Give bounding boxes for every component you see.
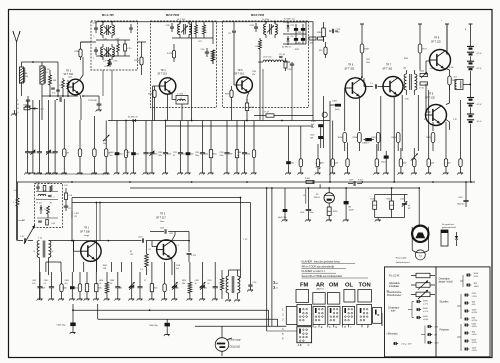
svg-text:C604: C604 [118, 154, 122, 156]
verticals from detector [262, 69, 264, 121]
svg-text:C204: C204 [167, 154, 171, 156]
svg-text:C4x: C4x [176, 288, 179, 290]
wire bus to C112 [182, 231, 189, 233]
svg-text:CLAVIER vu coté C.I.: CLAVIER vu coté C.I. [302, 270, 326, 273]
lines to right section [72, 197, 241, 199]
svg-text:±2,5%: ±2,5% [472, 320, 478, 322]
svg-text:O L: O L [46, 72, 49, 74]
feed terminal 447 [445, 23, 449, 25]
capacitor C111 [164, 229, 166, 233]
coil L204 [21, 62, 23, 67]
module M3 drops [231, 102, 233, 121]
svg-text:C211: C211 [173, 152, 177, 154]
svg-text:C 10: C 10 [20, 236, 24, 238]
electrolytic C302b [318, 136, 323, 139]
svg-text:C60: C60 [119, 288, 122, 290]
capacitor C220 [170, 26, 174, 28]
feed terminal 362 [360, 23, 364, 25]
svg-text:ant AM: ant AM [19, 219, 26, 222]
svg-text:4,5 V: 4,5 V [477, 53, 482, 55]
diode OA second [40, 207, 43, 210]
electrolytic C227 [294, 38, 298, 41]
svg-text:C201: C201 [458, 197, 463, 199]
svg-text:C220: C220 [288, 69, 292, 71]
bus TR1 top [55, 240, 139, 242]
svg-text:CELLULE: CELLULE [230, 346, 241, 349]
resistor R209 between modules [140, 57, 143, 65]
wire left drops [27, 100, 29, 128]
svg-text:±5%: ±5% [472, 304, 476, 306]
svg-text:[5uF]: [5uF] [335, 109, 340, 111]
vertical T12 feed [240, 198, 242, 279]
svg-text:L: L [25, 70, 26, 72]
svg-text:10n: 10n [252, 74, 255, 76]
svg-text:R30: R30 [319, 50, 322, 52]
svg-text:C608: C608 [23, 105, 27, 107]
resistor A320 mid [420, 73, 428, 76]
variable resistor arrow [411, 154, 418, 161]
diode K1 SFD110 [133, 119, 136, 122]
svg-text:C220: C220 [166, 25, 170, 27]
svg-text:C60x: C60x [36, 182, 40, 184]
svg-text:R410: R410 [250, 107, 255, 109]
cluster C608 [24, 107, 30, 110]
svg-text:R 32: R 32 [424, 119, 428, 121]
svg-text:L: L [13, 202, 14, 204]
svg-text:SF T 125: SF T 125 [431, 40, 441, 43]
svg-text:40 n: 40 n [454, 77, 458, 79]
wire mid stub [319, 184, 321, 188]
svg-text:R309: R309 [225, 94, 229, 96]
legend box frame [385, 267, 491, 357]
svg-text:C225: C225 [291, 25, 295, 27]
capacitor 16uF [283, 209, 288, 212]
capacitor C107 [142, 238, 144, 242]
arrow in M1 [104, 26, 112, 34]
tuner top parts [36, 186, 40, 188]
svg-text:TR 6: TR 6 [348, 64, 354, 67]
svg-text:+5: +5 [276, 288, 278, 290]
keyboard contacts row1 [299, 308, 301, 313]
module M2 R7005 dashed box [151, 21, 217, 108]
ground [25, 105, 30, 107]
main bus K1 line [108, 120, 330, 122]
TR2 bias resistor [145, 254, 149, 267]
svg-text:TR 5: TR 5 [238, 70, 244, 72]
svg-text:C30607: C30607 [362, 143, 369, 145]
svg-text:R.06: R.06 [371, 198, 375, 200]
coils L107 L108 [263, 60, 274, 62]
wire [22, 61, 34, 63]
svg-text:±20%: ±20% [472, 326, 477, 328]
resistor R305 [324, 47, 327, 55]
svg-text:±10%: ±10% [472, 350, 477, 352]
capacitor C106 [306, 209, 312, 211]
svg-text:SF T 316: SF T 316 [235, 73, 245, 75]
svg-text:±20%: ±20% [472, 342, 477, 344]
wire speaker top [418, 188, 420, 227]
bottom row components [39, 272, 41, 287]
capacitor C213 10K [98, 96, 100, 104]
wire TR2 emitter [171, 259, 173, 262]
resistor R320 right [448, 76, 451, 85]
svg-text:204: 204 [25, 76, 28, 78]
svg-text:C310: C310 [381, 162, 385, 164]
svg-text:K2 SFD 111: K2 SFD 111 [284, 19, 295, 21]
svg-text:C239: C239 [228, 154, 232, 156]
svg-text:C22: C22 [291, 36, 294, 38]
svg-text:C233: C233 [250, 25, 254, 27]
svg-text:OM: OM [329, 283, 339, 289]
diode K3 SFD111 [287, 38, 290, 41]
svg-text:R18: R18 [170, 233, 173, 235]
M1 interior zigzag [108, 59, 111, 66]
coil L218 [259, 40, 262, 49]
M1 bottom cap [108, 62, 112, 64]
svg-text:R306: R306 [148, 94, 152, 96]
transformer 1T706 bottom [176, 96, 188, 105]
svg-text:R610: R610 [98, 288, 102, 290]
IF transformer T1 bottom [101, 47, 103, 57]
outside tuner parts [65, 193, 68, 200]
svg-text:R614: R614 [182, 280, 186, 282]
svg-text:bleu: bleu [161, 221, 165, 223]
svg-text:R305: R305 [371, 137, 376, 139]
transistor TR4 [159, 78, 175, 94]
speaker terminal circle [415, 250, 425, 260]
capacitor C226b [332, 29, 334, 33]
svg-text:R322: R322 [295, 49, 299, 51]
components upper pill row [343, 133, 347, 143]
svg-text:12: 12 [17, 104, 19, 106]
TR4 base drop [153, 85, 160, 87]
transistor TR3 base parts [67, 82, 70, 89]
capacitor C230 [94, 27, 98, 29]
svg-text:100n: 100n [220, 155, 224, 157]
electrolytic C606 [165, 323, 170, 327]
small trimmer row [57, 75, 59, 96]
svg-text:R208: R208 [75, 51, 80, 53]
svg-text:D.06: D.06 [52, 223, 55, 225]
svg-text:K 320: K 320 [449, 67, 453, 69]
svg-text:C604: C604 [74, 288, 78, 290]
svg-text:0,05: 0,05 [32, 283, 35, 285]
resistor R306 [153, 90, 156, 98]
output transformer [455, 80, 463, 90]
svg-text:14: 14 [180, 98, 182, 100]
svg-text:M3 R 7005: M3 R 7005 [251, 13, 265, 17]
svg-text:TR 7: TR 7 [386, 64, 392, 67]
keyboard switch body [286, 306, 297, 324]
svg-text:MT: MT [408, 208, 410, 210]
keyboard feed wires [266, 188, 268, 331]
svg-text:C60: C60 [204, 288, 207, 290]
svg-text:K4 SFD 11: K4 SFD 11 [282, 47, 291, 49]
svg-text:100n: 100n [158, 155, 162, 157]
cap C208 [59, 97, 61, 102]
wire TR2 base [151, 241, 153, 247]
svg-text:R613: R613 [153, 288, 157, 290]
electrolytic C228 [301, 38, 305, 41]
svg-text:C311: C311 [366, 59, 370, 61]
wire TR3 emitter [80, 94, 81, 99]
components row mid [116, 130, 118, 152]
svg-text:/3: /3 [316, 163, 318, 165]
M1 right caps [129, 27, 133, 29]
svg-text:57: 57 [144, 280, 146, 282]
svg-text:KB7: KB7 [447, 163, 450, 165]
svg-text:R ± 1/2 W: R ± 1/2 W [389, 276, 400, 278]
svg-text:/2: /2 [316, 167, 318, 169]
svg-text:R204: R204 [212, 154, 216, 156]
svg-text:µF: µF [408, 205, 410, 207]
arrow to tuner [24, 225, 35, 244]
resistor R160 [327, 207, 331, 215]
svg-text:C.1: C.1 [176, 245, 179, 247]
transistor TR6 [345, 78, 365, 98]
svg-text:0,5A: 0,5A [472, 322, 477, 325]
svg-text:Seuls AR et TONE sont indépend: Seuls AR et TONE sont indépendant [302, 275, 343, 278]
svg-text:500V: 500V [423, 308, 428, 310]
volume pot P3 circle [324, 193, 334, 203]
TR5 base feed [233, 36, 235, 85]
svg-text:Céramique: Céramique [439, 278, 451, 281]
resistor R320 top [172, 51, 175, 59]
electrolytic C108 [344, 201, 349, 204]
svg-text:C604: C604 [65, 280, 69, 282]
svg-text:±10%: ±10% [472, 334, 477, 336]
svg-text:C204: C204 [158, 152, 162, 154]
svg-text:C.06: C.06 [64, 185, 68, 187]
resistor R.09 [418, 44, 422, 53]
cap at M3 entry [232, 30, 236, 32]
svg-text:W: W [17, 108, 19, 110]
svg-text:L.05: L.05 [255, 46, 258, 48]
electrolytic C310 [384, 156, 389, 159]
svg-text:M2 R 7005: M2 R 7005 [166, 13, 180, 17]
module M3 R7005 dashed box [223, 21, 309, 108]
svg-text:C.1: C.1 [370, 83, 373, 85]
svg-text:C608: C608 [110, 280, 114, 282]
svg-text:R302: R302 [402, 163, 406, 165]
svg-text:Adjustable: Adjustable [389, 282, 400, 285]
svg-text:G: G [335, 326, 337, 329]
svg-text:AR en TOON zijn afzonderlijk: AR en TOON zijn afzonderlijk [302, 265, 335, 268]
svg-text:R1: R1 [130, 251, 132, 253]
svg-text:C212: C212 [400, 198, 404, 200]
svg-text:SF T 306: SF T 306 [64, 74, 74, 76]
transistor TR9 [426, 105, 447, 126]
svg-text:L 208: L 208 [52, 80, 57, 82]
svg-text:Céramique: Céramique [388, 307, 400, 310]
resistor R303 bottom [306, 180, 314, 183]
svg-text:FM: FM [300, 283, 309, 289]
svg-text:50µF: 50µF [103, 143, 107, 145]
transistor TR1 [81, 241, 101, 261]
svg-text:M1 G 705: M1 G 705 [102, 13, 114, 17]
small parts under M3 [284, 61, 287, 68]
svg-text:C302: C302 [310, 135, 314, 137]
wire TR5 emitter [247, 92, 249, 97]
small caps cluster above TR5 [205, 51, 209, 53]
svg-text:rouge: rouge [84, 235, 90, 237]
svg-text:125: 125 [74, 216, 77, 218]
long bus y188 [130, 187, 419, 189]
svg-text:1n: 1n [195, 283, 197, 285]
svg-text:L 216: L 216 [113, 61, 117, 63]
electrolytic C301 [318, 124, 323, 127]
svg-text:±10%: ±10% [423, 319, 428, 321]
electrolytic C303 horizontal [335, 104, 341, 107]
svg-text:TR 3: TR 3 [66, 71, 72, 73]
electrolytic C30607 [365, 138, 372, 141]
module M1 G705 dashed box [91, 21, 138, 70]
wire TR2 collector [172, 235, 175, 241]
svg-text:TR 2: TR 2 [160, 213, 166, 216]
svg-text:L 216: L 216 [104, 66, 108, 68]
zigzag R by T12 [220, 278, 223, 290]
svg-text:TR 8: TR 8 [434, 37, 440, 40]
capacitor C201 [463, 200, 468, 202]
svg-text:AR: AR [316, 283, 325, 289]
svg-text:R.1: R.1 [149, 249, 152, 251]
svg-text:A.B: A.B [298, 344, 302, 347]
capacitor C233 [254, 26, 258, 28]
svg-text:Electrolyt.: Electrolyt. [388, 333, 398, 336]
svg-text:50u: 50u [65, 283, 68, 285]
svg-text:-20%: -20% [474, 276, 479, 278]
svg-text:TR 1: TR 1 [84, 227, 90, 230]
trimmer caps row [51, 87, 55, 89]
svg-text:C205: C205 [135, 154, 139, 156]
AM tuner dashed box [35, 184, 63, 228]
svg-text:4,5 V: 4,5 V [477, 104, 482, 106]
svg-text:SF T 317: SF T 317 [156, 216, 166, 219]
wire TR8 collector to rail [446, 24, 448, 52]
svg-text:disque / schijf: disque / schijf [439, 282, 453, 284]
svg-text:100uF: 100uF [349, 210, 355, 212]
long bus y182 [17, 181, 476, 183]
svg-text:R .06: R .06 [420, 88, 424, 90]
wires M2 top [172, 37, 200, 39]
left frame drop [16, 182, 18, 241]
driver transformer T31 [404, 74, 406, 90]
svg-text:F.2: F.2 [69, 208, 71, 210]
svg-text:L217: L217 [198, 41, 202, 43]
module M2 drops [154, 102, 156, 121]
wire TR4 emitter [171, 93, 173, 99]
svg-text:tube: tube [391, 310, 396, 313]
svg-text:C: C [308, 344, 310, 347]
M1 drops [102, 70, 104, 96]
svg-text:C111: C111 [160, 228, 164, 230]
svg-text:1K2: 1K2 [130, 254, 133, 256]
svg-text:R 303: R 303 [305, 178, 310, 180]
svg-text:C305: C305 [189, 154, 193, 156]
vertical to C106 arrow [305, 189, 307, 204]
tuner zigzag [47, 206, 50, 214]
resistor R410 [322, 28, 326, 37]
svg-text:≥ 50 µ : 10 V: ≥ 50 µ : 10 V [401, 343, 412, 346]
bottom bus 310 [73, 309, 269, 311]
node [32, 61, 34, 63]
svg-text:C 208: C 208 [74, 213, 79, 215]
wire [33, 61, 58, 63]
svg-text:50u: 50u [110, 155, 113, 157]
wire TR3 collector [80, 75, 83, 80]
svg-text:C239: C239 [220, 152, 224, 154]
svg-text:680p: 680p [336, 32, 340, 34]
keyboard side wires [381, 313, 383, 326]
svg-text:C22x: C22x [201, 49, 205, 51]
svg-text:R 201: R 201 [358, 180, 363, 182]
svg-text:2,5V: 2,5V [435, 343, 440, 345]
svg-text:Point rouge: Point rouge [229, 339, 242, 342]
svg-text:Tp 170x: Tp 170x [262, 19, 269, 21]
svg-text:R209: R209 [135, 60, 139, 62]
svg-text:L80: L80 [403, 68, 406, 70]
svg-text:4n: 4n [237, 155, 239, 157]
svg-text:F1: F1 [50, 203, 52, 205]
M2 second winding [202, 25, 205, 34]
transistor TR3 [68, 79, 84, 95]
svg-text:L 207: L 207 [46, 69, 51, 71]
transistor TR7 [383, 77, 403, 97]
svg-text:C213 10K: C213 10K [88, 100, 98, 102]
svg-text:C210: C210 [290, 163, 294, 165]
svg-text:C107: C107 [138, 237, 143, 239]
var arrows bottom row [129, 282, 135, 288]
svg-text:150K Ω: 150K Ω [314, 197, 321, 199]
svg-text:0,1: 0,1 [44, 283, 46, 285]
svg-text:Styroflex: Styroflex [440, 301, 450, 304]
svg-text:SF T 316: SF T 316 [158, 73, 168, 75]
svg-text:C612: C612 [195, 280, 199, 282]
svg-text:A 320: A 320 [308, 42, 313, 45]
wires to bottom row [45, 262, 47, 272]
svg-text:Point cablé: Point cablé [396, 257, 408, 260]
photocell CELLULE [215, 338, 229, 352]
IF transformer T1 top [101, 25, 103, 35]
svg-text:C613: C613 [207, 280, 211, 282]
svg-text:De spoel met: De spoel met [442, 223, 454, 226]
diode K2 SFD111 [287, 25, 290, 28]
svg-text:52: 52 [52, 251, 54, 253]
feed terminal 420 [418, 23, 422, 25]
svg-text:16µF C30x: 16µF C30x [278, 217, 287, 219]
svg-text:4u: 4u [126, 155, 128, 157]
tuner bottom parts [37, 217, 58, 219]
svg-text:100n: 100n [195, 155, 199, 157]
svg-text:R304: R304 [391, 137, 396, 139]
svg-text:C106: C106 [300, 212, 304, 214]
junction row [42, 95, 78, 97]
coil L209 row [36, 191, 58, 193]
svg-text:R313: R313 [404, 58, 408, 60]
svg-text:FL.017: FL.017 [37, 203, 42, 205]
resistor R208 [79, 49, 82, 57]
svg-text:4n: 4n [207, 283, 209, 285]
capacitor C307 [353, 181, 355, 186]
oscillator transformer T10 [37, 241, 39, 258]
svg-text:+C.1: +C.1 [40, 109, 44, 111]
svg-text:C.09: C.09 [69, 195, 73, 197]
left ground bus [34, 173, 110, 175]
svg-text:500V: 500V [423, 316, 428, 318]
svg-text:C606 50µ: C606 50µ [149, 325, 159, 327]
ground small left [12, 113, 17, 115]
transistor TR8 [430, 50, 451, 71]
